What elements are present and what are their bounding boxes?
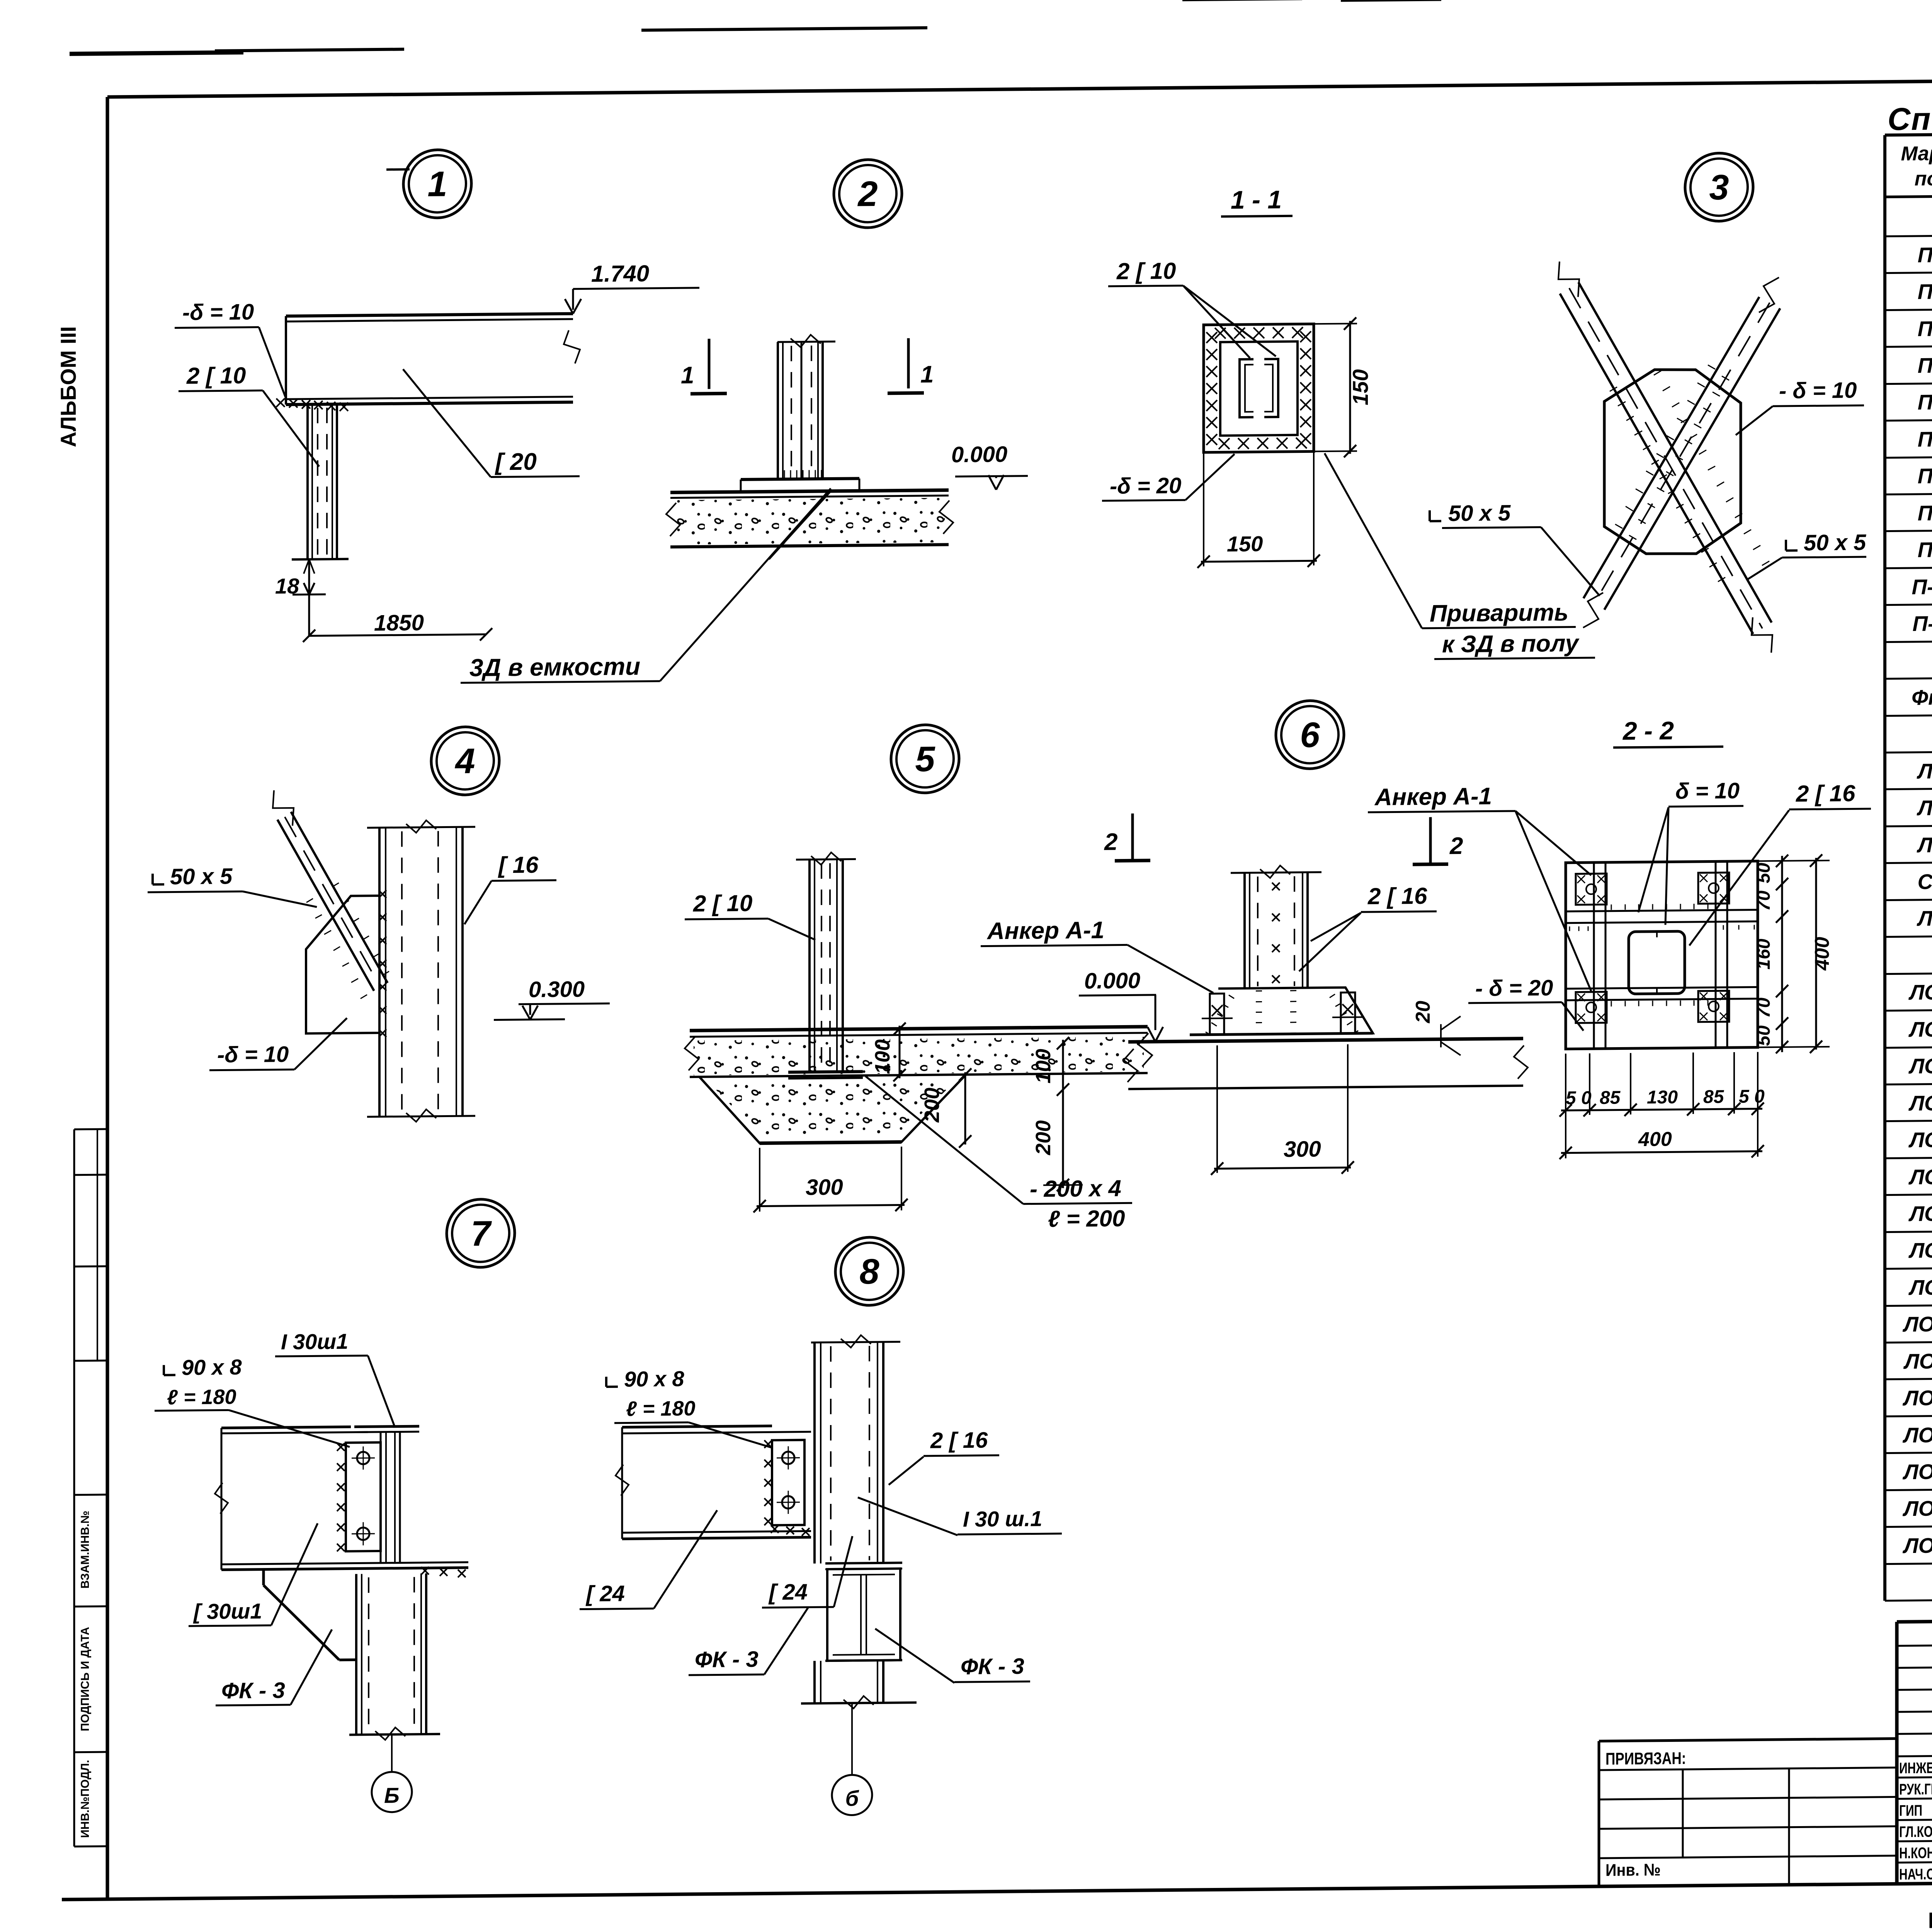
svg-text:2: 2 (1449, 833, 1463, 859)
detail8 console section I30sh1 (825, 1563, 902, 1563)
title block frame (1897, 1615, 1932, 1622)
detail8 bolted angle (772, 1440, 804, 1526)
node circle 1 (403, 150, 471, 218)
detail1 weld row under beam (276, 398, 285, 407)
svg-text:АЛЬБОМ III: АЛЬБОМ III (56, 326, 80, 447)
detail6 weld ticks base (1229, 995, 1234, 998)
detail6 anchor bolts (1210, 993, 1224, 1034)
svg-text:0.300: 0.300 (529, 976, 585, 1002)
svg-text:[ 24: [ 24 (768, 1580, 808, 1605)
node circle 8 (835, 1237, 903, 1306)
sheet frame (107, 75, 1932, 97)
sec2-2 weld ticks bands (1611, 905, 1612, 910)
svg-text:ЛО-8: ЛО-8 (1908, 1238, 1932, 1262)
svg-text:П-5: П-5 (1918, 390, 1932, 414)
svg-text:П-10: П-10 (1912, 575, 1932, 599)
svg-text:- δ = 10: - δ = 10 (1779, 378, 1857, 403)
svg-text:70: 70 (1753, 997, 1774, 1018)
svg-text:Марка,: Марка, (1901, 142, 1932, 165)
svg-text:ФК - 3: ФК - 3 (961, 1654, 1024, 1679)
svg-text:2 [ 10: 2 [ 10 (1116, 258, 1176, 284)
svg-text:ЛО-11: ЛО-11 (1903, 1349, 1932, 1373)
svg-text:2 [ 16: 2 [ 16 (1367, 883, 1427, 909)
detail1 dim 1850 (309, 634, 486, 636)
svg-text:П-6: П-6 (1918, 427, 1932, 451)
svg-text:50: 50 (1753, 862, 1774, 883)
privyazan box (1599, 1738, 1897, 1741)
svg-text:ИНЖЕНЕР: ИНЖЕНЕР (1899, 1759, 1932, 1777)
detail6 floor slab (1128, 1039, 1523, 1042)
svg-text:160: 160 (1753, 939, 1774, 970)
svg-text:150: 150 (1227, 531, 1263, 556)
detail6 base assembly (1190, 987, 1373, 1035)
svg-text:Л-4: Л-4 (1917, 906, 1932, 930)
detail5 dim 200 line (964, 1072, 966, 1145)
svg-text:ЛО-9: ЛО-9 (1908, 1275, 1932, 1299)
svg-text:1850: 1850 (374, 610, 424, 636)
svg-text:к ЗД в полу: к ЗД в полу (1442, 630, 1580, 658)
detail5 base plate (788, 1071, 863, 1072)
svg-text:2 - 2: 2 - 2 (1622, 716, 1674, 745)
svg-text:Л-1: Л-1 (1917, 759, 1932, 783)
svg-text:ВЗАМ.ИНВ.№: ВЗАМ.ИНВ.№ (79, 1510, 92, 1588)
detail4 column C16 (378, 828, 381, 1117)
svg-text:С-1: С-1 (1918, 869, 1932, 894)
svg-text:300: 300 (1284, 1136, 1321, 1162)
detail5 column 2C10 (808, 859, 811, 1072)
svg-text:[ 20: [ 20 (495, 449, 537, 476)
svg-text:Анкер А-1: Анкер А-1 (1374, 783, 1492, 811)
detail1 column 2C10 (306, 405, 309, 560)
svg-text:1: 1 (427, 164, 447, 204)
svg-text:Фк-3: Фк-3 (1912, 685, 1932, 709)
detail7 beam C30sh1 (221, 1427, 351, 1428)
svg-text:300: 300 (806, 1175, 843, 1200)
svg-text:0.000: 0.000 (1084, 968, 1140, 993)
svg-text:П-2: П-2 (1918, 279, 1932, 304)
title block left small rows (1897, 1643, 1932, 1646)
svg-text:4: 4 (454, 742, 475, 781)
svg-text:100: 100 (871, 1039, 894, 1075)
svg-text:[ 16: [ 16 (498, 852, 539, 878)
svg-text:1.740: 1.740 (591, 260, 649, 287)
svg-text:П-4: П-4 (1918, 353, 1932, 378)
margin boxes upper (73, 1129, 75, 1847)
sec1-1 hatch band x marks (1206, 332, 1217, 343)
detail7 weld x angle (337, 1443, 345, 1451)
svg-text:ℓ = 200: ℓ = 200 (1048, 1205, 1125, 1232)
detail2 section mark 1 right (907, 338, 910, 388)
svg-text:400: 400 (1638, 1128, 1672, 1151)
sec1-1 channels 2C10 (1240, 359, 1253, 417)
svg-text:поз.: поз. (1915, 167, 1932, 190)
detail6 weld x on column center (1272, 883, 1280, 890)
svg-text:1: 1 (920, 361, 934, 388)
svg-text:-δ = 20: -δ = 20 (1110, 473, 1181, 499)
sec2-2 anchor plates (1576, 874, 1607, 905)
detail4 gusset plate (306, 896, 379, 1034)
svg-text:3Д в емкости: 3Д в емкости (469, 652, 640, 682)
svg-text:I 30 ш.1: I 30 ш.1 (963, 1506, 1042, 1531)
svg-text:-δ = 10: -δ = 10 (182, 299, 254, 325)
svg-text:ЛО-1: ЛО-1 (1908, 980, 1932, 1004)
detail7 node B circle (372, 1772, 412, 1812)
detail2 column 2C10 (777, 342, 835, 342)
detail7 FK-3 console (262, 1570, 265, 1585)
svg-text:ЛО-16: ЛО-16 (1902, 1533, 1932, 1558)
svg-text:[ 24: [ 24 (585, 1581, 625, 1607)
svg-text:РУК.ГРУП.: РУК.ГРУП. (1899, 1781, 1932, 1798)
svg-text:ЛО-5: ЛО-5 (1908, 1128, 1932, 1152)
svg-text:ЛО-14: ЛО-14 (1902, 1459, 1932, 1484)
svg-text:130: 130 (1647, 1087, 1678, 1108)
detail5 dim 300 (759, 1148, 760, 1212)
detail2 section mark 1 left (708, 339, 711, 389)
detail3 brace A (1560, 292, 1753, 636)
detail8 lower column (813, 1661, 816, 1703)
svg-text:150: 150 (1348, 369, 1372, 405)
svg-text:ЛО-2: ЛО-2 (1908, 1017, 1932, 1041)
svg-text:100: 100 (1032, 1049, 1055, 1084)
svg-text:- 200 x 4: - 200 x 4 (1030, 1175, 1121, 1202)
svg-text:ЛО-15: ЛО-15 (1902, 1496, 1932, 1520)
detail8 upper column 2C16 (811, 1342, 900, 1342)
svg-text:δ = 10: δ = 10 (1675, 778, 1740, 804)
detail1 beam channel 20 (286, 314, 573, 316)
svg-text:б: б (845, 1786, 859, 1810)
detail2 base plate (741, 478, 859, 480)
svg-text:ФК - 3: ФК - 3 (695, 1647, 759, 1672)
svg-text:90 x 8: 90 x 8 (624, 1366, 685, 1391)
detail6 dim 300 (1216, 1045, 1218, 1173)
svg-text:- δ = 20: - δ = 20 (1475, 975, 1553, 1001)
svg-text:ПОДПИСЬ И ДАТА: ПОДПИСЬ И ДАТА (79, 1627, 92, 1731)
node circle 5 (891, 724, 959, 793)
svg-text:П-7: П-7 (1918, 464, 1932, 488)
title block person rows (1897, 1775, 1932, 1778)
svg-text:КОПИРОВАЛ: ЛОГИНОВА: КОПИРОВАЛ: ЛОГИНОВА (1928, 1905, 1932, 1932)
svg-text:1: 1 (681, 362, 694, 389)
svg-text:Инв. №: Инв. № (1605, 1860, 1661, 1880)
margin boxes lower (74, 1494, 107, 1496)
svg-text:Л-3: Л-3 (1917, 833, 1932, 857)
sec1-1 dim 150 right (1314, 323, 1357, 325)
svg-text:2: 2 (857, 174, 878, 214)
sec2-2 central tube 2C16 (1629, 931, 1685, 994)
svg-text:ФК - 3: ФК - 3 (221, 1678, 285, 1703)
svg-text:Л-2: Л-2 (1917, 796, 1932, 820)
svg-text:1 - 1: 1 - 1 (1231, 185, 1282, 214)
svg-text:2 [ 10: 2 [ 10 (186, 362, 246, 389)
svg-text:6: 6 (1300, 715, 1320, 755)
svg-text:ℓ = 180: ℓ = 180 (626, 1397, 696, 1421)
svg-text:2: 2 (1104, 829, 1117, 855)
svg-text:-δ = 10: -δ = 10 (217, 1042, 289, 1068)
svg-text:Спецификация элементов ограж: Спецификация элементов ограждений, лестн… (1888, 95, 1932, 137)
detail4 weld x on column face (379, 890, 386, 898)
sec2-2 vertical bolt lines (1593, 862, 1595, 1049)
spec table grid (1885, 128, 1932, 135)
svg-text:50 x 5: 50 x 5 (1448, 500, 1511, 526)
svg-text:ℓ = 180: ℓ = 180 (167, 1385, 236, 1409)
detail3 weld ticks along braces (1610, 387, 1617, 391)
detail5 pit trapezoid (699, 1075, 966, 1144)
sec1-1 dim 150 bottom (1203, 452, 1204, 566)
svg-text:ЛО-10: ЛО-10 (1902, 1312, 1932, 1336)
svg-text:5: 5 (915, 740, 935, 779)
svg-text:П-8: П-8 (1918, 501, 1932, 525)
svg-text:3: 3 (1709, 168, 1729, 207)
detail4 brace L50x5 (277, 819, 374, 992)
svg-text:50: 50 (1753, 1025, 1774, 1046)
scan artifact dashes top (70, 50, 243, 56)
svg-text:ЛО-4: ЛО-4 (1908, 1091, 1932, 1115)
detail7 I column head (354, 1426, 419, 1427)
svg-text:ЛО-13: ЛО-13 (1902, 1423, 1932, 1447)
svg-text:Приварить: Приварить (1430, 599, 1568, 627)
detail2 floor slab (670, 490, 949, 492)
svg-text:0.000: 0.000 (951, 442, 1007, 467)
svg-text:85: 85 (1600, 1088, 1621, 1108)
svg-text:ГЛ.КОНСТР: ГЛ.КОНСТР (1899, 1823, 1932, 1841)
svg-text:П-3: П-3 (1918, 316, 1932, 341)
svg-text:5 0: 5 0 (1739, 1086, 1765, 1107)
sec2-2 base plate plan (1566, 861, 1758, 1049)
node circle 3 (1685, 153, 1753, 222)
svg-text:ЛО-12: ЛО-12 (1902, 1386, 1932, 1410)
detail8 beam C24 (622, 1426, 772, 1427)
detail7 bolted angle (346, 1442, 381, 1551)
detail2 weld ticks on plate (784, 470, 785, 478)
sec2-2 dims bottom (1565, 1054, 1566, 1158)
node circle 6 (1276, 701, 1344, 769)
svg-text:П-9: П-9 (1918, 537, 1932, 562)
detail3 gusset octagon plate (1604, 369, 1741, 554)
leader from 3D line into slab (769, 491, 831, 559)
svg-text:200: 200 (920, 1087, 944, 1123)
svg-text:8: 8 (859, 1252, 879, 1291)
svg-text:7: 7 (471, 1214, 492, 1253)
svg-text:400: 400 (1811, 937, 1833, 971)
svg-text:ГИП: ГИП (1899, 1802, 1922, 1820)
detail5 floor slab and pit (690, 1027, 1148, 1031)
svg-text:НАЧ.ОТД: НАЧ.ОТД (1899, 1866, 1932, 1883)
svg-text:20: 20 (1412, 1001, 1434, 1024)
svg-text:5 0: 5 0 (1566, 1088, 1592, 1109)
detail8 node b circle (832, 1775, 872, 1815)
svg-text:70: 70 (1753, 890, 1774, 911)
svg-text:50 x 5: 50 x 5 (170, 864, 233, 889)
sec1-1 plate with hatched band (1204, 324, 1314, 452)
svg-text:85: 85 (1703, 1087, 1725, 1107)
sec2-2 dims right (1758, 861, 1830, 861)
svg-text:ЛО-7: ЛО-7 (1908, 1201, 1932, 1226)
svg-text:ИНВ.№ПОДЛ.: ИНВ.№ПОДЛ. (79, 1760, 92, 1838)
detail4 weld ticks on brace in plate (306, 898, 313, 902)
node circle 4 (431, 726, 499, 795)
node circle 7 (447, 1199, 515, 1268)
svg-text:2 [ 10: 2 [ 10 (693, 890, 752, 917)
sec2-2 horizontal band lines (1566, 910, 1758, 911)
svg-text:Н.КОНТР.: Н.КОНТР. (1899, 1844, 1932, 1862)
svg-text:2 [ 16: 2 [ 16 (1796, 780, 1855, 806)
detail5 dim 100 line (899, 1026, 901, 1078)
detail6 dim chain 100 200 (1062, 1040, 1064, 1188)
svg-text:50 x 5: 50 x 5 (1804, 530, 1866, 555)
svg-text:200: 200 (1032, 1120, 1055, 1156)
svg-text:ЛО-3: ЛО-3 (1908, 1054, 1932, 1078)
svg-text:ЛО-6: ЛО-6 (1908, 1165, 1932, 1189)
svg-text:П-11: П-11 (1913, 611, 1932, 636)
node circle 2 (834, 159, 902, 228)
detail3 brace B (1583, 297, 1759, 598)
svg-text:Анкер А-1: Анкер А-1 (986, 917, 1104, 945)
svg-text:2 [ 16: 2 [ 16 (930, 1428, 988, 1453)
svg-text:90 x 8: 90 x 8 (182, 1355, 242, 1379)
detail6 column 2C16 (1243, 873, 1246, 988)
svg-text:П-1: П-1 (1918, 243, 1932, 267)
detail7 lower column (355, 1574, 357, 1735)
detail6 section mark 2 top (1131, 813, 1134, 861)
svg-text:ПРИВЯЗАН:: ПРИВЯЗАН: (1605, 1749, 1686, 1768)
svg-text:[ 30ш1: [ 30ш1 (193, 1599, 262, 1624)
svg-text:I 30ш1: I 30ш1 (281, 1329, 348, 1354)
detail6 section mark 2 right (1429, 817, 1432, 864)
svg-text:Б: Б (384, 1783, 400, 1808)
